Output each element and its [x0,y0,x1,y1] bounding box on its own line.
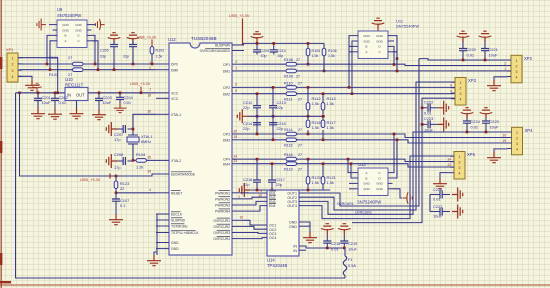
resistor R123 22 [115,176,117,181]
svg-text:10uF: 10uF [433,214,442,219]
svg-text:USB_+3.3V: USB_+3.3V [229,13,250,18]
power ground U13 right [393,189,403,198]
power ground above C225 [480,108,493,119]
wire DP2 [242,86,286,88]
resistor R117 1.5k [322,116,324,120]
svg-text:9: 9 [241,188,243,192]
svg-text:DM4: DM4 [223,162,230,166]
svg-text:PWRON3: PWRON3 [215,204,230,208]
svg-text:F1: F1 [348,257,353,262]
svg-text:R114: R114 [284,128,293,132]
ground C107 [109,214,123,225]
svg-text:SN75240PW: SN75240PW [396,24,419,29]
sheet bottom border mark [0,281,11,283]
svg-text:27: 27 [68,56,72,60]
svg-text:GND: GND [171,241,179,245]
svg-text:10uF: 10uF [103,100,112,105]
svg-text:C208: C208 [114,152,123,157]
svg-text:R106: R106 [328,49,337,53]
capacitor C201 10uF [37,93,39,99]
svg-text:23: 23 [447,163,451,167]
svg-text:GND: GND [363,34,369,38]
svg-text:C: C [378,171,380,175]
svg-text:D: D [77,34,79,38]
svg-text:SN75240PW: SN75240PW [57,13,81,18]
op-amp U12 TUSB2046B hub controller [169,43,232,255]
svg-text:0.01: 0.01 [424,111,432,116]
wire gnd return route [352,98,455,222]
svg-text:PWRON1: PWRON1 [215,191,230,195]
svg-text:C210: C210 [277,49,286,53]
svg-text:C205: C205 [100,49,109,53]
svg-text:3: 3 [459,166,461,170]
svg-text:3: 3 [12,69,14,73]
ground C204 [114,103,127,113]
resistor R111 27 [286,92,297,96]
svg-text:2: 2 [235,60,237,64]
svg-text:TSTPLL+48MCLK: TSTPLL+48MCLK [171,231,199,235]
svg-text:D: D [378,176,380,180]
op-amp U14 TPS2044B power switch [267,190,299,256]
svg-text:1: 1 [504,67,506,71]
svg-text:R119: R119 [284,167,293,171]
svg-text:C: C [77,39,79,43]
power ground U9 pin8 [95,19,104,30]
resistor R110 27 [286,86,297,90]
resistor R106 1.5k [323,43,325,48]
svg-text:IN: IN [293,249,297,253]
svg-text:DM1: DM1 [223,70,230,74]
power ground above C219 [338,224,351,235]
svg-text:1: 1 [149,61,151,65]
svg-text:R109: R109 [284,75,293,79]
wire U12 test pins [156,214,158,255]
svg-text:17p: 17p [114,165,121,170]
wire OVRCUR1-OC1 [242,220,267,225]
svg-text:27: 27 [296,58,300,62]
svg-text:SN75240PW: SN75240PW [357,200,381,205]
wire XP1 pin4 to ground [18,76,32,79]
wire BUSPWR net [242,43,324,45]
svg-text:2: 2 [460,87,462,91]
svg-text:1.5k: 1.5k [156,55,163,59]
wire gnd jog [154,252,157,255]
svg-text:R102: R102 [49,73,58,77]
wire U11 A-left [349,51,354,53]
capacitor C215 22p [272,123,274,140]
svg-text:0.01: 0.01 [124,100,132,105]
svg-text:DM3: DM3 [223,138,230,142]
svg-text:27: 27 [298,167,302,171]
capacitor C203 10uF [98,93,100,99]
svg-text:OC4: OC4 [269,236,276,240]
svg-text:1: 1 [459,155,461,159]
ESD array U11 [358,31,388,59]
svg-text:PWRON2: PWRON2 [215,198,230,202]
svg-text:C227: C227 [433,204,442,209]
svg-text:0.01: 0.01 [433,197,441,202]
svg-text:C224: C224 [471,119,481,124]
svg-text:10p: 10p [261,54,267,58]
wire U11 B-left [349,45,354,47]
wire U13 A-left to DP4 [348,159,354,173]
svg-text:GND: GND [289,225,297,229]
wire XP3 pin4 gnd [494,149,508,152]
svg-text:R110: R110 [284,82,293,86]
wire DP4 [242,158,286,160]
capacitor C220 0.01 [462,42,464,49]
wire XTAL1 net [133,114,156,135]
svg-text:3: 3 [516,70,518,74]
svg-text:22p: 22p [276,182,283,187]
svg-text:GND: GND [363,39,369,43]
svg-text:R104: R104 [136,152,146,157]
svg-text:26: 26 [147,156,151,160]
svg-text:0.1: 0.1 [120,203,125,208]
svg-text:4: 4 [12,75,14,79]
resistor R108 27 [286,62,297,66]
svg-text:C223: C223 [424,116,433,121]
wire PWRON3-EN3 [242,201,267,205]
svg-text:0.01: 0.01 [471,125,479,130]
svg-text:C218: C218 [331,241,340,246]
ground rail port4 [250,189,330,191]
sheet left border [0,0,2,288]
resistor R115 27 [286,138,297,142]
capacitor C226 0.01 [430,194,433,196]
svg-text:0.01: 0.01 [331,247,339,252]
svg-text:PWRON4: PWRON4 [215,210,230,214]
connector XP3 [512,127,523,155]
svg-text:4: 4 [516,147,518,151]
resistor R114 27 [286,132,297,136]
svg-text:USB_+3.3V: USB_+3.3V [80,177,101,182]
ground U9 pin1 [37,19,46,31]
svg-text:24: 24 [233,154,237,158]
capacitor C219 10uF [343,235,345,242]
resistor R113 1.5k [322,94,324,103]
svg-text:10: 10 [239,216,243,220]
power ground above C221 [479,31,492,42]
wire U11 D-right to DP1 [393,46,395,64]
svg-text:4: 4 [516,75,518,79]
svg-text:R103: R103 [156,49,165,53]
svg-text:20: 20 [502,134,506,138]
power ground above C218 [321,224,334,235]
svg-text:GND: GND [75,28,81,32]
svg-text:5: 5 [235,89,237,93]
svg-text:C225: C225 [490,119,499,124]
wire OUT2 route [299,82,455,210]
wire OUT4 route [299,156,454,219]
svg-text:XP3: XP3 [468,78,477,83]
svg-text:GND: GND [363,182,369,186]
svg-text:U14: U14 [267,258,275,263]
capacitor C207 17p [128,128,134,130]
svg-text:GND: GND [75,23,81,27]
capacitor C217 22p [271,164,273,180]
wire XP4b pin4 gnd [440,173,450,178]
capacitor C107 0.1 [115,193,117,199]
ESD array U9 [57,20,87,48]
svg-text:C209: C209 [261,49,270,53]
svg-text:C: C [378,50,380,54]
wire U14 GND [299,222,310,232]
svg-text:18: 18 [147,94,151,98]
svg-text:U10: U10 [65,77,73,82]
svg-text:REG1117: REG1117 [65,83,83,88]
svg-text:1.5k: 1.5k [328,54,335,58]
resistor R119 27 [286,162,297,166]
svg-text:SUSPND: SUSPND [171,219,186,223]
ground rail ports12 [248,115,325,117]
svg-text:1.5k: 1.5k [312,180,319,185]
svg-text:1.5k: 1.5k [327,180,334,185]
svg-text:R115: R115 [284,143,293,147]
wire rail to U10 IN [16,92,66,94]
svg-text:1.5k: 1.5k [327,125,334,130]
wire EEDATA net [20,93,157,176]
resistor R118 27 [286,157,297,161]
svg-text:1.5k: 1.5k [312,54,319,58]
svg-text:R105: R105 [312,49,321,53]
power ground above C209 [251,32,264,43]
svg-text:BUSPWR: BUSPWR [215,44,230,48]
wire XP2 pin4 gnd [494,77,507,80]
svg-text:24: 24 [447,158,451,162]
wire DM2 [242,93,286,95]
svg-text:6: 6 [235,83,237,87]
svg-text:GND: GND [376,34,382,38]
wire U9 C-right to DM0 [92,41,99,70]
wire +5V rail left drop [16,93,346,278]
wire cap stub [429,195,431,212]
svg-text:22p: 22p [277,105,284,110]
svg-text:R118: R118 [284,153,293,157]
resistor R102 27 [73,68,84,72]
capacitor C204 0.01 [119,93,121,98]
svg-text:29: 29 [147,169,151,173]
svg-text:OVRCUR4: OVRCUR4 [213,237,230,241]
capacitor C208 17p [132,159,134,162]
wire U9 B-left to DP0 [47,35,53,64]
wire U13 B-left to DM4 [351,164,354,178]
ground U14 [303,232,317,243]
resistor R105 1.5k [307,43,309,48]
wire OVRCUR2-OC2 [242,226,267,229]
power ground U11 [372,18,385,29]
svg-text:1: 1 [516,59,518,63]
svg-text:R108: R108 [284,58,293,62]
svg-text:0.01: 0.01 [59,100,67,105]
svg-text:GND: GND [62,23,68,27]
svg-text:DP2: DP2 [223,86,230,90]
svg-text:D: D [378,45,380,49]
svg-text:23: 23 [233,159,237,163]
ground C203 [92,109,106,120]
svg-text:22p: 22p [277,126,284,131]
svg-text:19: 19 [233,135,237,139]
capacitor C212 22p [256,94,258,106]
svg-text:1.5k: 1.5k [312,125,319,130]
svg-text:30: 30 [147,110,151,114]
svg-text:1: 1 [238,189,240,193]
svg-text:10uF: 10uF [489,53,498,58]
wire OVRCUR/GANGED stub [242,50,244,52]
svg-text:C220: C220 [467,47,477,52]
ground C208 [106,154,117,168]
ground C227 [452,205,463,219]
svg-text:C226: C226 [433,187,442,192]
svg-text:EEDATA/MODE: EEDATA/MODE [171,173,196,177]
wire DM4 [242,163,286,165]
svg-text:A: A [366,171,368,175]
svg-text:VCC: VCC [171,97,179,101]
wire DM3 [242,139,286,141]
wire PWRON2-EN2 [242,197,267,199]
svg-text:7: 7 [149,88,151,92]
wire U9 A-left to DM0 [50,41,53,70]
connector XP4b [454,152,465,180]
svg-text:B: B [366,45,368,49]
svg-text:6MHz: 6MHz [141,139,151,144]
svg-text:6: 6 [450,84,452,88]
wire OUT3 route [299,132,512,214]
svg-text:VCC: VCC [171,91,179,95]
svg-text:XTAL2: XTAL2 [171,159,181,163]
svg-text:2: 2 [149,66,151,70]
wire U13 D-right to DM3 [393,140,398,178]
ground XP4b [433,178,447,189]
ground C201 [31,108,45,119]
resistor R109 27 [286,69,297,73]
power ground above C206 [127,33,140,44]
capacitor C223 10uF [422,123,427,125]
svg-text:C222: C222 [424,99,433,104]
svg-text:DP4: DP4 [223,158,230,162]
svg-text:OVRCUR3: OVRCUR3 [213,231,230,235]
power port +5V rail [32,83,41,91]
svg-text:EECLK: EECLK [171,213,183,217]
wire DP3 [242,133,286,135]
svg-text:XP1: XP1 [6,47,14,52]
svg-text:10p: 10p [277,54,283,58]
wire U11 right r2 [393,40,395,42]
svg-text:1: 1 [460,81,462,85]
svg-text:1.5k: 1.5k [312,101,319,106]
capacitor C202 0.01 [54,93,56,99]
svg-text:3: 3 [516,142,518,146]
connector XP1 [7,53,18,82]
resistor R121 1.5k [322,164,324,177]
svg-text:5: 5 [450,89,452,93]
svg-text:4: 4 [149,188,151,192]
svg-text:27: 27 [296,75,300,79]
svg-text:22p: 22p [243,105,250,110]
wire U11 pin1 rail [349,36,354,88]
wire PWRON4-EN4 [242,206,267,212]
svg-text:C219: C219 [348,241,357,246]
svg-text:XP5: XP5 [467,152,476,157]
regulator U10 REG1117 [65,88,88,101]
capacitor C210 10p [273,43,275,49]
junction on +5V rail [56,92,59,95]
svg-text:OVRCUR2: OVRCUR2 [213,225,230,229]
wire U14 IN [299,246,345,248]
svg-text:GND: GND [363,187,369,191]
svg-text:20: 20 [233,129,237,133]
svg-text:TSTMODE: TSTMODE [171,225,188,229]
wire RESET net [116,192,156,194]
capacitor C216 22p [256,159,258,180]
svg-text:DP0: DP0 [171,63,178,67]
capacitor C221 10uF [484,42,486,49]
svg-text:RESET: RESET [171,191,182,195]
svg-text:1: 1 [12,57,14,61]
wire U13 gnd-left [349,182,354,184]
capacitor C218 0.01 [326,235,328,242]
wire VBUS from XP1 pin1 [18,58,58,93]
capacitor C205 33p [110,45,118,47]
ground XP3 [487,152,501,163]
power ground above C224 [461,108,474,119]
wire DM0 [18,69,73,71]
svg-text:10uF: 10uF [348,247,357,252]
svg-text:2: 2 [459,161,461,165]
svg-text:GND: GND [376,182,382,186]
ground XP1 [25,80,39,91]
svg-text:OUT4: OUT4 [287,204,297,208]
svg-text:19: 19 [502,139,506,143]
wire crystal to XTAL2 node [133,144,136,160]
svg-text:OUT: OUT [76,93,85,98]
svg-text:B: B [366,176,368,180]
svg-text:OVRCUR/GANGED: OVRCUR/GANGED [200,49,231,53]
resistor R103 1.5k [150,47,154,55]
wire DP1 [242,63,286,65]
svg-text:4: 4 [459,172,461,176]
power ground above C220 [457,31,470,42]
svg-text:22: 22 [120,186,124,191]
svg-text:C221: C221 [489,47,498,52]
svg-text:33p: 33p [100,55,106,59]
ground C202 [48,109,62,120]
ground U10 [76,101,78,109]
svg-text:2: 2 [516,64,518,68]
wire OVRCUR3-OC3 [242,232,267,235]
resistor R104 1.2k [136,159,147,163]
svg-text:2: 2 [504,62,506,66]
svg-text:2: 2 [238,195,240,199]
fuse F1 0.5A [344,248,346,256]
svg-text:U12: U12 [168,37,176,42]
svg-text:17p: 17p [114,137,121,142]
svg-text:USB_+3.3V: USB_+3.3V [137,36,157,40]
svg-text:B: B [65,34,67,38]
svg-text:XTAL1: XTAL1 [171,113,181,117]
svg-text:USB_+3.3V: USB_+3.3V [130,81,151,86]
svg-text:OVRCUR1: OVRCUR1 [213,219,230,223]
wire U10 OUT rail [88,92,156,94]
wire OUT1 route [299,59,419,206]
wire U11 pin2 rail [352,41,354,94]
resistor R116 1.5k [307,116,309,120]
svg-text:DM2: DM2 [223,92,230,96]
capacitor C214 22p [256,123,258,134]
svg-text:GND: GND [376,39,382,43]
capacitor C206 33p [129,45,137,47]
svg-text:GND: GND [171,247,179,251]
